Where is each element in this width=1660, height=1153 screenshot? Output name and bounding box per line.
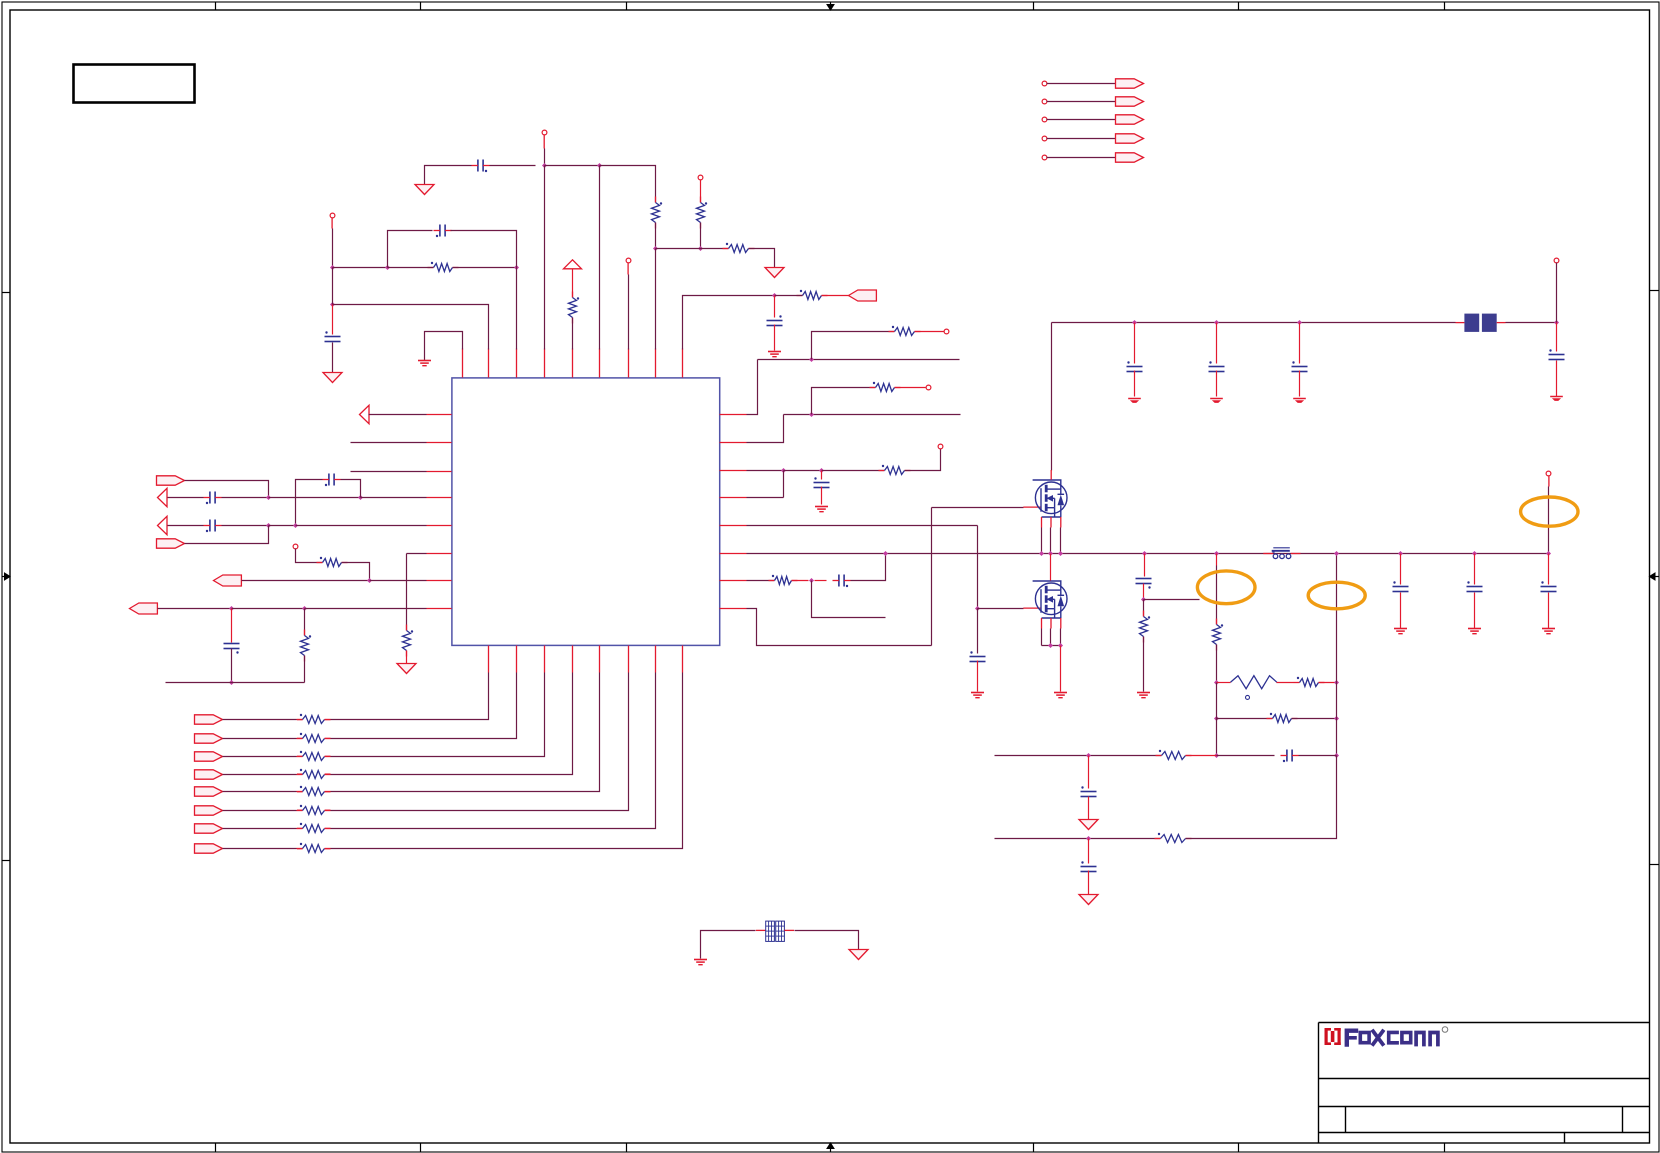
junction node K2 — [1214, 320, 1219, 325]
wire H2 up to R21 — [812, 388, 876, 415]
wire P2 down to C21 — [1474, 554, 1476, 585]
wire R16 staircase to IC pin x654 — [331, 673, 656, 829]
wire Q2 drain vertical — [1050, 554, 1052, 581]
thermistor mark — [1246, 695, 1250, 699]
wire R9 to GND6 — [406, 651, 408, 664]
IC U1 body — [452, 378, 720, 646]
junction node B3 — [514, 265, 519, 270]
wire E4 to IC — [296, 525, 427, 527]
wire gate node down to C10 — [977, 609, 979, 654]
junction node G2G — [975, 606, 980, 611]
wire IC left pin y471 stub — [351, 471, 427, 473]
wire TQ1 to port — [1047, 83, 1116, 85]
highlight ellipse HE2 — [1308, 582, 1365, 609]
ground GND14 — [1137, 693, 1150, 698]
resistor R1 — [652, 197, 663, 229]
wire IC left pin y442 stub — [351, 442, 427, 444]
junction node K1 — [1132, 320, 1137, 325]
junction node L2 — [1141, 597, 1146, 602]
power symbol VCC1 — [564, 260, 582, 269]
resistor R27 — [1267, 713, 1298, 723]
wire F1 to IC — [370, 580, 427, 582]
wire y248 rail — [656, 248, 729, 250]
wire IC right pin y414 up x756 — [747, 360, 758, 415]
port PORT-J5 — [195, 787, 223, 796]
wire TP1 down to y165 rail — [544, 149, 546, 166]
wire PORT-J6 to R15 — [223, 810, 297, 812]
capacitor C18 — [1081, 786, 1097, 796]
junction node A2 — [698, 246, 703, 251]
wire PORT-F corner up to E3 — [185, 526, 269, 544]
IC U1 bottom pin stubs — [489, 646, 683, 673]
terminal pin TP10 — [1546, 471, 1551, 476]
wire y358 rail — [758, 359, 960, 361]
wire R7 corner down to node F1 — [342, 563, 370, 581]
junction node M6 — [1334, 753, 1339, 758]
wire IC pin y469 to node H3 — [747, 470, 784, 472]
resistor R3 — [723, 243, 755, 253]
wire PORT-G to node F1 — [242, 580, 370, 582]
junction node N2 — [1086, 836, 1091, 841]
port PORT-J1 — [195, 715, 223, 724]
wire PORT-H to node G1 — [158, 608, 232, 610]
junction node M4 — [1214, 716, 1219, 721]
wire TP9 down to K4 — [1556, 263, 1558, 323]
wire IC pin x462 up-left to GND4 — [425, 332, 463, 361]
wire H5 stub down right — [812, 581, 886, 618]
thermistor RT1 — [1231, 676, 1277, 689]
port PORT-J6 — [195, 806, 223, 815]
wire PORT-J2 to R11 — [223, 738, 297, 740]
wire M1 red stub — [1216, 554, 1218, 566]
resistor R21 — [870, 382, 901, 392]
border center mark top — [826, 2, 835, 11]
junction node BUS1 — [883, 551, 888, 556]
wire D1 to R6 — [775, 295, 803, 297]
junction node M5 — [1334, 716, 1339, 721]
wire C22 to GND19 — [1548, 593, 1550, 629]
terminal pin TP3 — [330, 213, 335, 218]
wire C21 to GND18 — [1474, 593, 1476, 629]
wire L2 stub right — [1144, 599, 1200, 601]
wire x977 vertical to gate node — [977, 526, 979, 609]
wire TP2 to R2 — [700, 180, 702, 203]
terminal pin TP5 — [293, 544, 298, 549]
wire x543 down to IC pin — [544, 166, 546, 350]
junction node G1 — [229, 606, 234, 611]
junction node M2 — [1214, 680, 1219, 685]
ground GND13 — [1550, 397, 1563, 401]
junction node G3 — [229, 680, 234, 685]
ground GND9 — [1054, 693, 1067, 698]
wire K2 down to C13 — [1216, 323, 1218, 364]
capacitor C2 — [434, 225, 452, 238]
junction node E2 — [358, 495, 363, 500]
wire jumper right to GND21 — [795, 931, 859, 950]
wire D1 down to C4 — [774, 296, 776, 318]
wire jumper left with GND20 — [701, 931, 756, 959]
wire C9 to GND7 — [821, 487, 823, 505]
wire PORT-J4 to R13 — [223, 774, 297, 776]
junction node H1 — [809, 357, 814, 362]
resistor R28 — [1156, 750, 1192, 760]
junction node E3 — [266, 523, 271, 528]
registered trademark mark — [1442, 1027, 1448, 1033]
ground GND8 — [971, 693, 984, 698]
wire C10 to GND8 — [977, 661, 979, 692]
junction node H3 — [781, 468, 786, 473]
capacitor C4 — [767, 315, 783, 325]
port PORT-C — [157, 476, 185, 485]
wire M2 to RT1 — [1217, 682, 1231, 684]
junction node Q2S2 — [1058, 643, 1063, 648]
wire TP4 down to IC pin — [628, 275, 630, 350]
junction node P1 — [1398, 551, 1403, 556]
Foxconn logo icon — [1325, 1028, 1341, 1045]
resistor R26 — [1294, 677, 1325, 687]
junction node M7 — [1214, 753, 1219, 758]
wire Q1 source left — [1041, 528, 1043, 554]
junction node P2 — [1472, 551, 1477, 556]
wire PORT-D to C5 — [168, 497, 204, 499]
terminal pin TP6 — [944, 329, 949, 334]
resistor R11 — [297, 733, 331, 743]
wire L1 down to C16 — [1144, 554, 1146, 577]
wire x654 down to IC pin — [655, 249, 657, 350]
wire y165 rail to x654 corner — [600, 166, 656, 203]
terminal pin TP2 — [698, 175, 703, 180]
border center mark left — [2, 572, 11, 581]
ground GND12 — [1293, 399, 1306, 403]
junction node A1 — [653, 246, 658, 251]
IC U1 left pin stubs — [427, 415, 452, 609]
wire C1 left lead corner down — [425, 166, 472, 185]
capacitor C16 — [1136, 579, 1152, 589]
port PORT-K3 — [1116, 115, 1144, 124]
wire C4 to GND5 — [774, 325, 776, 351]
wire R27 to node M5 — [1292, 718, 1337, 720]
wire B2 to R4 — [388, 267, 434, 269]
junction node y165 at x599 — [597, 163, 602, 168]
wire C2 to x516 corner — [451, 231, 517, 268]
wire PORT-J8 to R17 — [223, 848, 297, 850]
terminal pin TQ4 — [1042, 136, 1047, 141]
transistor Q2 — [1033, 581, 1067, 618]
resistor R10 — [297, 714, 331, 724]
terminal pin TQ3 — [1042, 117, 1047, 122]
border center mark right — [1649, 572, 1660, 581]
port PORT-J8 — [195, 844, 223, 853]
wire R1 to node y248 — [655, 223, 657, 249]
wire C18 to GND15 — [1088, 797, 1090, 820]
ground GND21 — [849, 950, 868, 960]
wire C6 to E2 — [341, 480, 361, 498]
resistor R23 — [769, 575, 798, 585]
IC U1 right pin stubs — [720, 415, 747, 609]
port PORT-K2 — [1116, 97, 1144, 106]
junction node H4 — [819, 468, 824, 473]
junction node B4 — [330, 302, 335, 307]
crystal Y1 hatched package — [766, 921, 785, 941]
wire R5 down to IC pin — [572, 318, 574, 350]
capacitor C11 — [833, 575, 851, 588]
wire N2 down to C19 — [1088, 839, 1090, 864]
capacitor C13 — [1209, 361, 1225, 371]
junction node G2 — [302, 606, 307, 611]
revision reference box — [74, 65, 195, 103]
wire M1 down to R25 — [1216, 566, 1218, 625]
wire M4 to R27 — [1217, 718, 1273, 720]
ground GND17 — [1394, 629, 1407, 634]
junction node M0 — [1334, 551, 1339, 556]
IC U1 top pin stubs — [463, 349, 683, 378]
wire y165 rail to x599 — [545, 165, 600, 167]
wire E3 to node E4 — [269, 525, 296, 527]
ferrite bead FB1 — [1464, 314, 1496, 332]
wire Q2 source to GND9 — [1060, 646, 1062, 692]
wire H3 vertical to y496 corner — [783, 471, 785, 498]
wire R22 corner up to TP8 — [905, 449, 941, 471]
wire M2 down to M4 — [1216, 683, 1218, 719]
resistor R16 — [297, 823, 331, 833]
ground GND15 — [1079, 820, 1098, 830]
wire gate1 horizontal — [932, 507, 1024, 509]
wire x405 net from IC y552 — [407, 553, 427, 555]
wire Q1 source right — [1060, 528, 1062, 554]
wire R3 to GND2 — [749, 249, 775, 268]
wire C17 to M6 — [1299, 755, 1337, 757]
wire C14 to GND12 — [1299, 371, 1301, 397]
junction node K3 — [1297, 320, 1302, 325]
junction node E4 — [293, 523, 298, 528]
wire B4 right corner down to IC pin x488 — [333, 305, 489, 350]
wire C15 to GND13 — [1556, 361, 1558, 397]
port PORT-K1 — [1116, 79, 1144, 88]
ground GND11 — [1210, 399, 1223, 403]
highlight ellipse HE1 — [1197, 571, 1255, 604]
capacitor C8 — [224, 644, 240, 654]
wire IC right pin y496 wire — [747, 497, 784, 499]
wire PORT-E to C7 — [168, 525, 204, 527]
ground GND10 — [1128, 399, 1141, 403]
wire C11 corner up to bus — [851, 554, 886, 581]
wire PORT-J5 to R14 — [223, 791, 297, 793]
wire rail1 y755 — [995, 755, 1162, 757]
capacitor C19 — [1081, 861, 1097, 871]
wire TQ5 to port — [1047, 157, 1116, 159]
resistor R20 — [889, 326, 921, 336]
wire Q2 source left — [1041, 629, 1043, 646]
wire IC pin y608 to x756 corner down — [747, 609, 932, 646]
ground GND5 — [768, 352, 781, 357]
capacitor C9 — [814, 477, 830, 487]
wire x1336 bus drop — [1336, 554, 1338, 756]
wire Q1 source mid — [1050, 528, 1052, 554]
wire C5 to node E1 — [222, 497, 269, 499]
junction node Q1S3 — [1058, 551, 1063, 556]
wire C8 down to node G3 — [231, 649, 233, 683]
wire R2 to node y248 — [700, 223, 702, 249]
junction node B1 — [330, 265, 335, 270]
port PORT-J4 — [195, 770, 223, 779]
wire P1 down to C20 — [1400, 554, 1402, 585]
port PORT-F — [157, 539, 185, 548]
port arrow PORT-E — [158, 516, 168, 534]
wire top bus y322 — [1052, 322, 1456, 324]
capacitor C6 — [323, 474, 341, 487]
resistor R22 — [879, 465, 911, 475]
terminal pin TP1 node VDDIN — [542, 130, 547, 135]
ground GND20 — [694, 960, 707, 965]
wire R20 to TP6 — [915, 331, 945, 333]
wire E2 to IC — [361, 497, 427, 499]
wire R6 to port — [822, 295, 849, 297]
resistor R6 — [797, 290, 828, 300]
wire M7 to C17 — [1217, 755, 1275, 757]
capacitor C10 — [970, 651, 986, 661]
terminal pin TQ5 — [1042, 155, 1047, 160]
wire K4 down to C15 — [1556, 323, 1558, 352]
wire G2 to IC — [305, 608, 427, 610]
capacitor C14 — [1292, 361, 1308, 371]
resistor R2 — [697, 197, 708, 229]
wire PORT-C corner down to node E1 — [185, 481, 269, 498]
wire R29 to corner M6 — [1186, 756, 1337, 839]
wire x599 down to IC pin — [599, 166, 601, 350]
wire Q1 drain vertical — [1051, 323, 1053, 471]
junction node B2 — [385, 265, 390, 270]
junction node F1 — [367, 578, 372, 583]
wire C16 to node L2 — [1143, 584, 1145, 600]
wire IC pin y580 to R23 — [747, 580, 775, 582]
wire C7 to node E3 — [222, 525, 269, 527]
ground GND6 — [397, 664, 416, 674]
port PORT-K4 — [1116, 134, 1144, 143]
capacitor C22 — [1541, 581, 1557, 591]
junction node H5 — [809, 578, 814, 583]
wire main bus y552 — [747, 553, 1549, 555]
wire B4 down to C3 — [332, 305, 334, 335]
wire C3 to GND3 — [332, 343, 334, 373]
wire PORT-B to IC — [369, 414, 427, 416]
terminal pin TP7 — [926, 385, 931, 390]
junction node M1 — [1214, 551, 1219, 556]
port PORT-J3 — [195, 752, 223, 761]
wire VCC1 to R5 — [572, 269, 574, 298]
wire G1 down to C8 — [231, 609, 233, 643]
wire gate2 horizontal — [978, 608, 1024, 610]
ground GND19 — [1542, 629, 1555, 634]
port PORT-J2 — [195, 734, 223, 743]
wire C12 to GND10 — [1134, 371, 1136, 397]
inductor L10 — [1272, 548, 1291, 559]
wire PORT-J1 to R10 — [223, 719, 297, 721]
wire P3 down to C22 — [1548, 554, 1550, 585]
wire x516 down to IC pin — [516, 268, 518, 350]
junction node E1 — [266, 495, 271, 500]
terminal pin TP8 — [938, 444, 943, 449]
wire Q2 source mid — [1050, 629, 1052, 646]
ground GND2 — [765, 268, 784, 278]
wire R4 to node B3 — [453, 267, 517, 269]
wire FB1 to node K4 — [1506, 322, 1557, 324]
terminal pin TP4 — [626, 258, 631, 263]
resistor R8 — [301, 630, 312, 662]
wire C19 to GND16 — [1088, 871, 1090, 895]
wire R26 to node M3 — [1319, 682, 1337, 684]
Foxconn logo text — [1347, 1031, 1438, 1045]
capacitor C3 — [325, 331, 341, 341]
junction node P3 — [1546, 551, 1551, 556]
resistor R5 — [569, 292, 580, 324]
resistor R15 — [297, 805, 331, 815]
junction node N1 — [1086, 753, 1091, 758]
junction node Q1S2 — [1048, 551, 1053, 556]
wire L2 down to R24 — [1143, 600, 1145, 617]
terminal pin TQ2 — [1042, 99, 1047, 104]
wire TP3 down to node y267 — [332, 229, 334, 268]
ground GND4 — [418, 361, 431, 366]
wire R8 down to rail — [304, 656, 306, 683]
wire x405 vertical — [406, 554, 408, 631]
port PORT-J7 — [195, 824, 223, 833]
resistor R24 — [1140, 611, 1151, 643]
port arrow PORT-B — [360, 405, 370, 423]
junction node Q2S1 — [1048, 643, 1053, 648]
wire H3 to node H4 — [784, 470, 822, 472]
capacitor C15 — [1549, 349, 1565, 359]
capacitor C5 — [204, 492, 222, 505]
junction node Q1S1 — [1039, 551, 1044, 556]
wire R28 to M7 — [1186, 755, 1217, 757]
wire TQ4 to port — [1047, 138, 1116, 140]
wire TP10 down to bus — [1548, 487, 1550, 554]
highlight ellipse HE3 — [1521, 497, 1578, 526]
terminal pin TQ1 — [1042, 81, 1047, 86]
resistor R25 — [1213, 619, 1224, 651]
wire y414 rail second segment — [784, 414, 961, 416]
wire N1 down to C18 — [1088, 756, 1090, 789]
ground GND7 — [815, 507, 828, 512]
transistor Q1 — [1033, 480, 1067, 517]
wire TQ3 to port — [1047, 119, 1116, 121]
junction node H2 — [809, 412, 814, 417]
wire H5 to C11 — [815, 580, 827, 582]
wire H4 down to C9 — [821, 471, 823, 480]
wire R11 staircase to IC pin x516 — [331, 673, 517, 739]
wire R17 staircase to IC pin x682 — [331, 673, 683, 849]
wire R13 staircase to IC pin x572 — [331, 673, 573, 775]
resistor R29 — [1155, 833, 1192, 843]
wire cap C6 branch — [296, 480, 323, 526]
junction node K4 — [1554, 320, 1559, 325]
port PORT-G — [214, 575, 242, 586]
wire R10 staircase to IC pin x488 — [331, 673, 489, 720]
wire C20 to GND17 — [1400, 593, 1402, 629]
wire PORT-J3 to R12 — [223, 756, 297, 758]
port PORT-A — [849, 290, 877, 301]
wire bottom rail y681 — [166, 682, 305, 684]
capacitor C20 — [1393, 581, 1409, 591]
resistor R9 — [403, 625, 414, 657]
resistor R17 — [297, 843, 331, 853]
wire Q2 source tie bar — [1042, 645, 1061, 647]
wire x931 vertical up to gate1 — [931, 508, 933, 646]
title block grid — [1319, 1023, 1650, 1143]
ground GND3 — [323, 373, 342, 383]
resistor R12 — [297, 751, 331, 761]
junction node L1 — [1142, 551, 1147, 556]
